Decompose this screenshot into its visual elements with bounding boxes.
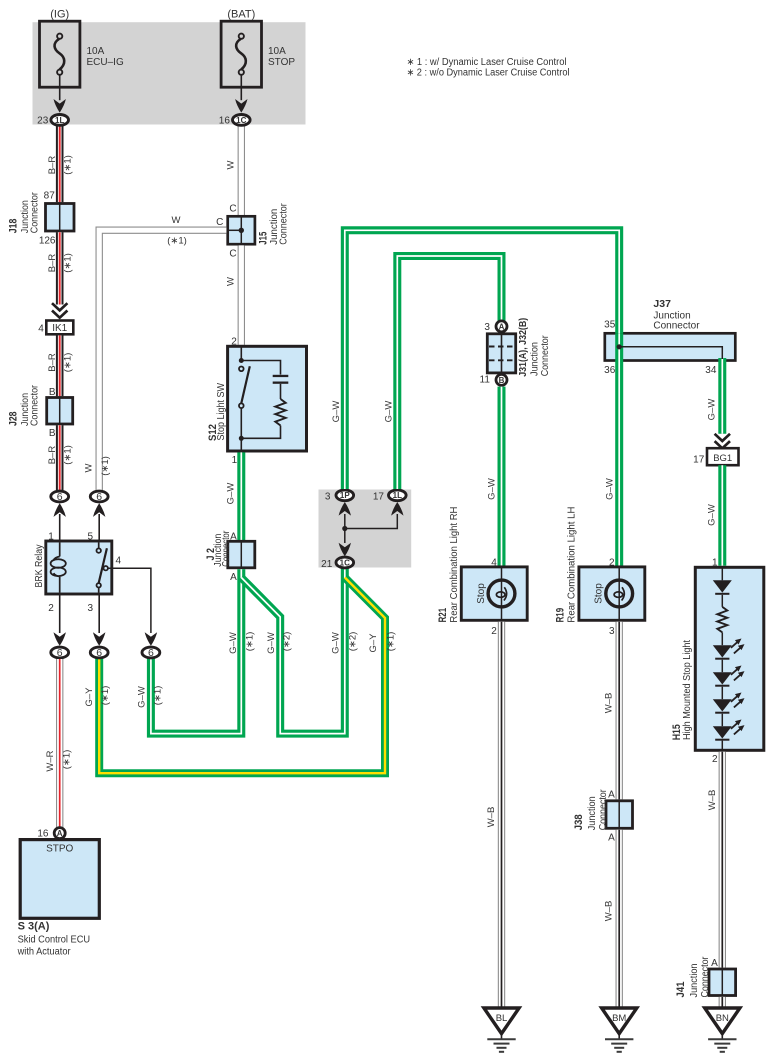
- svg-text:6: 6: [96, 491, 102, 503]
- svg-text:W: W: [172, 215, 181, 226]
- svg-text:B: B: [49, 387, 56, 398]
- svg-text:G–Y: G–Y: [84, 687, 95, 707]
- svg-text:A: A: [230, 572, 237, 583]
- svg-text:3: 3: [609, 626, 615, 637]
- svg-text:C: C: [216, 217, 223, 228]
- svg-text:1C: 1C: [340, 558, 350, 567]
- svg-text:36: 36: [604, 365, 616, 376]
- svg-text:2: 2: [609, 557, 615, 568]
- svg-text:A: A: [57, 829, 63, 838]
- svg-text:A: A: [711, 958, 718, 969]
- svg-text:(∗1): (∗1): [244, 632, 255, 652]
- svg-text:Skid Control ECU: Skid Control ECU: [18, 935, 91, 946]
- svg-text:B–R: B–R: [47, 156, 58, 175]
- svg-text:10A: 10A: [268, 46, 286, 57]
- svg-text:B–R: B–R: [47, 446, 58, 465]
- svg-text:R21: R21: [437, 608, 449, 623]
- svg-text:1L: 1L: [393, 491, 402, 500]
- svg-text:W–B: W–B: [604, 901, 615, 922]
- svg-text:Connector: Connector: [29, 192, 40, 234]
- svg-text:17: 17: [373, 492, 385, 503]
- svg-text:BL: BL: [496, 1013, 508, 1024]
- svg-text:∗ 1 : w/ Dynamic Laser Cruise: ∗ 1 : w/ Dynamic Laser Cruise Control: [407, 57, 567, 68]
- svg-text:C: C: [229, 204, 236, 215]
- svg-text:Stop: Stop: [594, 583, 605, 604]
- svg-text:J15: J15: [258, 232, 270, 245]
- svg-text:Rear Combination Light RH: Rear Combination Light RH: [449, 507, 460, 623]
- svg-text:Junction: Junction: [689, 964, 700, 998]
- svg-text:3: 3: [87, 603, 93, 614]
- svg-text:A: A: [608, 833, 615, 844]
- svg-text:(∗2): (∗2): [282, 632, 293, 652]
- svg-text:G–W: G–W: [228, 632, 239, 654]
- svg-text:23: 23: [37, 116, 49, 127]
- svg-text:4: 4: [116, 556, 122, 567]
- svg-text:G–W: G–W: [487, 478, 498, 500]
- svg-text:16: 16: [37, 829, 49, 840]
- svg-text:R19: R19: [555, 608, 567, 623]
- svg-text:G–W: G–W: [331, 401, 342, 423]
- svg-text:(∗1): (∗1): [153, 686, 164, 706]
- svg-text:17: 17: [693, 454, 705, 465]
- svg-text:10A: 10A: [87, 46, 105, 57]
- svg-text:Connector: Connector: [700, 956, 711, 998]
- svg-text:W–B: W–B: [707, 790, 718, 811]
- svg-text:ECU–IG: ECU–IG: [87, 57, 124, 68]
- svg-text:Connector: Connector: [653, 321, 700, 332]
- svg-text:BRK Relay: BRK Relay: [34, 545, 45, 588]
- svg-text:1: 1: [232, 455, 238, 466]
- svg-text:B: B: [49, 428, 56, 439]
- svg-text:Connector: Connector: [598, 789, 609, 831]
- svg-text:G–W: G–W: [225, 483, 236, 505]
- svg-text:G–W: G–W: [384, 401, 395, 423]
- svg-text:with Actuator: with Actuator: [17, 947, 72, 958]
- svg-text:16: 16: [219, 116, 231, 127]
- svg-text:6: 6: [57, 491, 63, 503]
- svg-text:Connector: Connector: [221, 530, 232, 567]
- svg-text:1: 1: [48, 532, 54, 543]
- svg-text:J37: J37: [653, 298, 671, 310]
- svg-text:87: 87: [44, 190, 56, 201]
- svg-text:Connector: Connector: [278, 203, 289, 245]
- svg-text:34: 34: [705, 365, 717, 376]
- svg-text:1C: 1C: [236, 116, 246, 125]
- svg-text:A: A: [499, 322, 505, 331]
- svg-text:S 3(A): S 3(A): [18, 921, 50, 933]
- svg-text:(∗1): (∗1): [100, 686, 111, 706]
- svg-text:G–Y: G–Y: [368, 633, 379, 653]
- svg-text:35: 35: [604, 319, 616, 330]
- svg-text:2: 2: [48, 603, 54, 614]
- svg-text:Connector: Connector: [540, 335, 551, 377]
- svg-text:(∗1): (∗1): [63, 445, 74, 465]
- svg-text:(∗1): (∗1): [63, 353, 74, 373]
- svg-text:W–B: W–B: [604, 693, 615, 714]
- svg-text:Junction: Junction: [529, 342, 540, 376]
- svg-text:W–B: W–B: [486, 807, 497, 828]
- svg-text:(∗1): (∗1): [385, 632, 396, 652]
- svg-text:1: 1: [712, 557, 718, 568]
- svg-text:(IG): (IG): [50, 9, 69, 21]
- svg-text:B–R: B–R: [47, 254, 58, 273]
- svg-text:C: C: [229, 248, 236, 259]
- svg-text:(∗1): (∗1): [100, 456, 111, 476]
- svg-text:STPO: STPO: [46, 844, 73, 855]
- svg-text:4: 4: [38, 324, 44, 335]
- svg-text:G–W: G–W: [707, 504, 718, 526]
- svg-text:4: 4: [491, 557, 497, 568]
- svg-text:(∗1): (∗1): [63, 155, 74, 175]
- svg-text:B: B: [499, 376, 505, 385]
- svg-text:5: 5: [87, 532, 93, 543]
- svg-text:(∗2): (∗2): [347, 632, 358, 652]
- svg-text:BM: BM: [612, 1013, 626, 1024]
- svg-text:2: 2: [712, 754, 718, 765]
- svg-text:3: 3: [484, 322, 490, 333]
- svg-text:Stop Light SW: Stop Light SW: [216, 382, 227, 440]
- svg-text:126: 126: [39, 235, 56, 246]
- svg-text:STOP: STOP: [268, 57, 295, 68]
- svg-text:W: W: [226, 160, 237, 169]
- svg-text:Rear Combination Light LH: Rear Combination Light LH: [567, 507, 578, 623]
- svg-text:BN: BN: [716, 1013, 729, 1024]
- svg-text:6: 6: [96, 647, 102, 659]
- svg-text:G–W: G–W: [137, 686, 148, 708]
- svg-text:W: W: [84, 463, 95, 472]
- svg-text:11: 11: [480, 375, 491, 386]
- svg-text:IK1: IK1: [52, 323, 67, 334]
- svg-text:Stop: Stop: [476, 583, 487, 604]
- svg-text:J41: J41: [675, 982, 687, 998]
- svg-text:W: W: [226, 277, 237, 286]
- svg-text:(∗1): (∗1): [61, 750, 72, 770]
- svg-text:(∗1): (∗1): [63, 253, 74, 273]
- svg-text:J28: J28: [8, 412, 20, 427]
- svg-text:(∗1): (∗1): [167, 236, 187, 247]
- svg-text:J31(A), J32(B): J31(A), J32(B): [517, 318, 529, 377]
- svg-text:High Mounted Stop Light: High Mounted Stop Light: [682, 640, 693, 740]
- svg-text:2: 2: [491, 626, 497, 637]
- svg-text:J38: J38: [573, 814, 585, 830]
- svg-text:3: 3: [325, 492, 331, 503]
- svg-text:1L: 1L: [55, 116, 64, 125]
- svg-text:Connector: Connector: [29, 384, 40, 426]
- svg-text:BG1: BG1: [713, 453, 732, 464]
- svg-text:(BAT): (BAT): [227, 9, 255, 21]
- svg-text:6: 6: [148, 647, 154, 659]
- svg-text:J18: J18: [8, 219, 20, 234]
- svg-text:6: 6: [57, 647, 63, 659]
- svg-text:1P: 1P: [340, 491, 350, 500]
- svg-text:W–R: W–R: [45, 750, 56, 771]
- svg-text:G–W: G–W: [266, 632, 277, 654]
- svg-text:B–R: B–R: [47, 353, 58, 372]
- svg-text:21: 21: [321, 559, 333, 570]
- svg-text:A: A: [608, 790, 615, 801]
- svg-text:2: 2: [231, 336, 237, 347]
- svg-text:G–W: G–W: [604, 478, 615, 500]
- svg-text:∗ 2 : w/o Dynamic Laser Cruise: ∗ 2 : w/o Dynamic Laser Cruise Control: [407, 68, 570, 79]
- svg-text:G–W: G–W: [330, 632, 341, 654]
- svg-text:G–W: G–W: [707, 399, 718, 421]
- svg-text:Junction: Junction: [587, 796, 598, 830]
